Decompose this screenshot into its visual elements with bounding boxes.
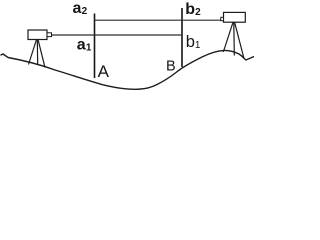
svg-text:A: A — [98, 62, 110, 81]
svg-text:B: B — [166, 58, 176, 74]
svg-text:a1: a1 — [77, 37, 92, 54]
svg-text:b1: b1 — [186, 33, 201, 51]
svg-text:a2: a2 — [73, 0, 88, 17]
svg-text:b2: b2 — [185, 1, 201, 18]
